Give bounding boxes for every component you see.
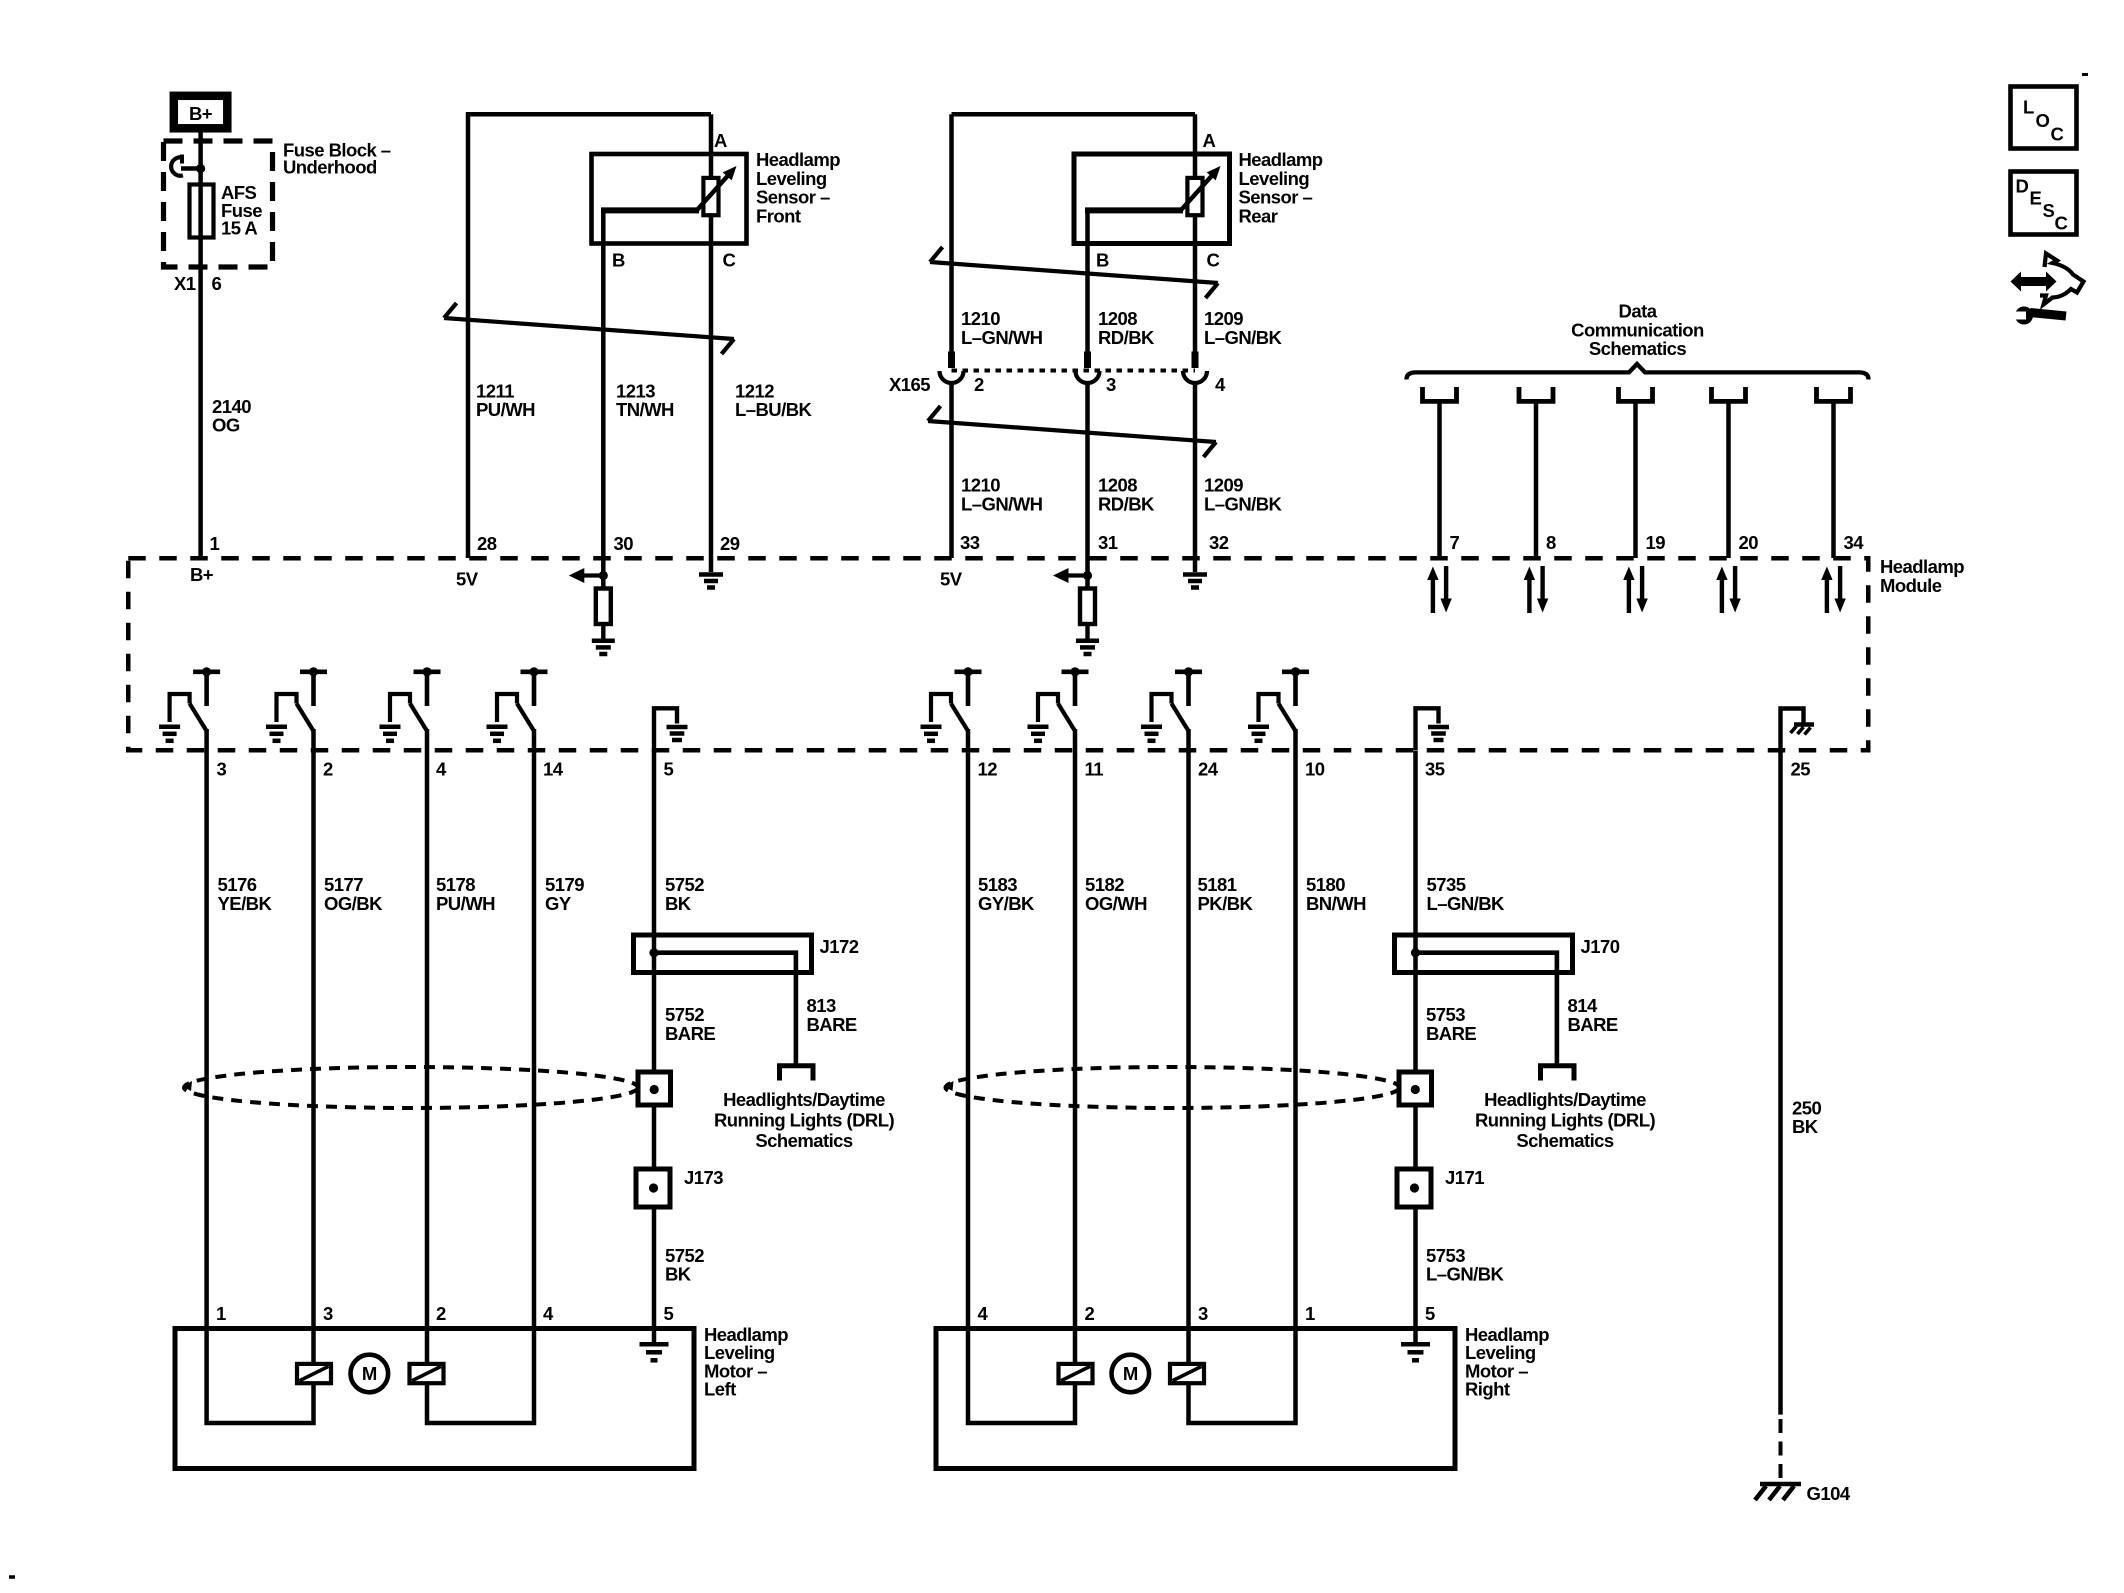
splice pack J172 <box>634 935 812 973</box>
motor left pin 2 label <box>436 1303 446 1324</box>
pin 19 label <box>1646 532 1666 553</box>
label DRL schematics left <box>714 1089 895 1151</box>
svg-text:L–GN/BK: L–GN/BK <box>1426 1264 1505 1285</box>
bidirectional data arrows pin 2 <box>1524 566 1549 613</box>
module pin 14 label <box>543 759 564 780</box>
off-page arrow across front sensor wires <box>444 303 734 354</box>
pin 31 label <box>1098 532 1118 553</box>
motor M left <box>351 1355 389 1393</box>
label 5752 BARE <box>665 1004 715 1044</box>
svg-text:5V: 5V <box>456 569 479 590</box>
svg-text:C: C <box>723 250 736 271</box>
driver output switch 6 <box>1028 667 1089 741</box>
label wire 5176 YE/BK <box>218 874 273 914</box>
label wire 1212 L-BU/BK <box>735 381 813 421</box>
driver output switch 7 <box>1141 667 1202 741</box>
label J170 <box>1581 936 1620 957</box>
svg-text:C: C <box>1207 250 1220 271</box>
wire 1210 L-GN/WH upper <box>949 114 954 352</box>
splice J173 <box>636 1169 670 1207</box>
label wire 1209 lower <box>1204 475 1283 515</box>
driver output switch 8 <box>1248 667 1309 741</box>
svg-text:Left: Left <box>704 1379 736 1400</box>
motor left pin 4 label <box>543 1303 554 1324</box>
svg-text:15 A: 15 A <box>221 218 257 239</box>
label headlamp leveling sensor front <box>756 149 840 226</box>
label connector X1 pin 6 <box>174 273 222 294</box>
label wire 5179 GY <box>545 874 584 914</box>
label wire 5177 OG/BK <box>324 874 383 914</box>
label headlamp leveling motor right <box>1465 1324 1549 1400</box>
label J171 <box>1445 1167 1484 1188</box>
off-page bracket 814 <box>1541 1066 1575 1081</box>
off-page bracket 813 <box>780 1066 814 1081</box>
svg-text:RD/BK: RD/BK <box>1098 493 1155 514</box>
label headlamp leveling motor left <box>704 1324 788 1400</box>
svg-text:L–GN/BK: L–GN/BK <box>1204 327 1283 348</box>
pin 20 label <box>1739 532 1759 553</box>
ground G104 <box>1755 1484 1801 1500</box>
svg-text:Rear: Rear <box>1239 205 1278 226</box>
svg-text:Schematics: Schematics <box>1516 1130 1614 1151</box>
pin 8 label <box>1546 532 1556 553</box>
label wire 5752 BK <box>665 874 704 914</box>
brace data communication <box>1407 364 1869 380</box>
svg-text:X1: X1 <box>174 273 196 294</box>
motor left internal ground <box>640 1329 669 1361</box>
wire 5753 shield drain right <box>1413 751 1418 1329</box>
junction dot J170 <box>1411 948 1420 957</box>
pin 29 label <box>720 533 740 554</box>
svg-text:1: 1 <box>216 1303 226 1324</box>
svg-text:2: 2 <box>323 759 333 780</box>
motor left pin 1 label <box>216 1303 226 1324</box>
output wire 6 to motor <box>1073 729 1078 1329</box>
svg-text:B: B <box>612 250 625 271</box>
label wire 5182 OG/WH <box>1085 874 1147 914</box>
output wire 3 to motor <box>425 729 430 1329</box>
svg-text:Right: Right <box>1465 1379 1510 1400</box>
svg-text:24: 24 <box>1198 759 1219 780</box>
label 5753 BARE <box>1426 1004 1476 1044</box>
svg-text:Front: Front <box>756 205 801 226</box>
svg-text:3: 3 <box>1106 374 1116 395</box>
svg-text:B+: B+ <box>189 103 213 124</box>
label wire 1210 lower <box>961 475 1043 515</box>
label wire 1213 TN/WH <box>616 381 674 421</box>
splice pack J170 <box>1395 935 1573 973</box>
module pin 2 label <box>323 759 333 780</box>
svg-text:M: M <box>1123 1363 1138 1384</box>
svg-text:BARE: BARE <box>1426 1023 1476 1044</box>
svg-text:4: 4 <box>1215 374 1226 395</box>
svg-text:8: 8 <box>1546 532 1556 553</box>
svg-text:34: 34 <box>1844 532 1865 553</box>
svg-text:RD/BK: RD/BK <box>1098 327 1155 348</box>
svg-text:OG: OG <box>212 415 240 436</box>
output wire 4 to motor <box>532 729 537 1329</box>
label wire 5180 BN/WH <box>1306 874 1366 914</box>
scan artifact bottom left <box>9 1575 15 1579</box>
svg-text:Module: Module <box>1880 575 1942 596</box>
svg-text:BARE: BARE <box>665 1023 715 1044</box>
svg-text:3: 3 <box>217 759 227 780</box>
svg-text:4: 4 <box>436 759 447 780</box>
svg-text:PU/WH: PU/WH <box>476 399 535 420</box>
svg-text:BARE: BARE <box>1568 1014 1618 1035</box>
label X165 <box>889 374 930 395</box>
svg-text:L–GN/BK: L–GN/BK <box>1427 893 1506 914</box>
module pin 25 label <box>1791 759 1811 780</box>
bidirectional data arrows pin 1 <box>1427 566 1452 613</box>
svg-text:GY: GY <box>545 893 572 914</box>
shield ellipse right <box>944 1067 1400 1108</box>
module pin 11 label <box>1085 759 1104 780</box>
variable resistor right 2 <box>1170 1364 1204 1383</box>
svg-text:32: 32 <box>1209 532 1229 553</box>
svg-text:814: 814 <box>1568 995 1598 1016</box>
bidirectional data arrows pin 4 <box>1716 566 1741 613</box>
svg-text:Underhood: Underhood <box>283 157 377 178</box>
svg-text:C: C <box>2055 213 2068 234</box>
svg-text:A: A <box>1203 130 1216 151</box>
svg-text:5: 5 <box>664 759 674 780</box>
service icon double arrow <box>2011 272 2057 292</box>
module pin 4 label <box>436 759 447 780</box>
svg-text:25: 25 <box>1791 759 1811 780</box>
headlamp module box (dashed) <box>128 558 1868 750</box>
pin C label front <box>723 250 736 271</box>
pin B label front <box>612 250 625 271</box>
svg-text:10: 10 <box>1305 759 1325 780</box>
pin 33 label <box>960 532 980 553</box>
module pin 35 label <box>1425 759 1445 780</box>
driver output switch 1 <box>159 667 220 741</box>
headlamp leveling sensor front box <box>592 154 747 244</box>
svg-text:33: 33 <box>960 532 980 553</box>
label 5752 BK lower <box>665 1245 704 1285</box>
shield terminal box left <box>638 1072 671 1105</box>
driver output switch 4 <box>487 667 548 741</box>
motor right pin 3 label <box>1198 1303 1208 1324</box>
data link connector 2 <box>1519 387 1553 558</box>
label wire 5181 PK/BK <box>1198 874 1254 914</box>
svg-text:B+: B+ <box>190 564 214 585</box>
svg-text:J173: J173 <box>684 1167 723 1188</box>
variable resistor right 1 <box>1059 1364 1093 1383</box>
label X165 pin 2 <box>974 374 984 395</box>
motor right pin 4 label <box>978 1303 989 1324</box>
pin A label front <box>714 130 727 151</box>
potentiometer front <box>703 178 718 215</box>
wire 1211 PU/WH to 5V <box>468 114 711 558</box>
label wire 1211 PU/WH <box>476 381 535 421</box>
motor left pin 5 label <box>664 1303 674 1324</box>
wire 1210 lower <box>949 383 954 558</box>
label wire 5183 GY/BK <box>978 874 1035 914</box>
shield terminal box right <box>1399 1072 1432 1105</box>
connector X165 terminals <box>940 352 1208 384</box>
svg-text:TN/WH: TN/WH <box>616 399 674 420</box>
svg-text:11: 11 <box>1085 759 1104 780</box>
motor right pin 5 label <box>1425 1303 1435 1324</box>
label J172 <box>820 936 859 957</box>
bidirectional data arrows pin 3 <box>1623 566 1648 613</box>
headlamp leveling motor left box <box>175 1329 694 1469</box>
svg-text:1: 1 <box>210 533 220 554</box>
svg-text:19: 19 <box>1646 532 1666 553</box>
motor left pin 3 label <box>323 1303 333 1324</box>
svg-text:1: 1 <box>1305 1303 1315 1324</box>
internal ground corner at pin x=654 <box>654 708 688 750</box>
svg-text:5752: 5752 <box>665 1004 704 1025</box>
scan artifact top right <box>2082 73 2088 76</box>
pin 32 label <box>1209 532 1229 553</box>
motor right winding loop A <box>968 1329 1075 1424</box>
svg-text:2: 2 <box>974 374 984 395</box>
motor right pin 1 label <box>1305 1303 1315 1324</box>
svg-text:2: 2 <box>436 1303 446 1324</box>
wire 250 BK <box>1778 750 1783 1415</box>
pin 34 label <box>1844 532 1865 553</box>
LOC icon box <box>2011 87 2077 149</box>
label 813 BARE <box>807 995 857 1035</box>
svg-text:4: 4 <box>978 1303 989 1324</box>
svg-text:Headlamp: Headlamp <box>1880 556 1964 577</box>
label wire 5178 PU/WH <box>436 874 495 914</box>
label X165 pin 3 <box>1106 374 1116 395</box>
data link connector 5 <box>1817 387 1851 558</box>
wire rear sensor 5V top <box>952 112 1196 117</box>
svg-text:O: O <box>2036 110 2050 131</box>
motor left winding loop B <box>427 1329 534 1424</box>
module pin 24 label <box>1198 759 1219 780</box>
headlamp leveling sensor rear box <box>1074 154 1230 244</box>
svg-text:20: 20 <box>1739 532 1759 553</box>
svg-text:29: 29 <box>720 533 740 554</box>
svg-text:Schematics: Schematics <box>1589 338 1687 359</box>
svg-text:Headlights/Daytime: Headlights/Daytime <box>723 1089 885 1110</box>
pin 28 label <box>477 533 497 554</box>
headlamp leveling motor right box <box>936 1329 1455 1469</box>
label wire 1208 lower <box>1098 475 1155 515</box>
variable resistor left 1 <box>297 1364 331 1383</box>
svg-text:31: 31 <box>1098 532 1118 553</box>
wire 250 BK dashed tail <box>1779 1419 1783 1482</box>
driver output switch 2 <box>266 667 327 741</box>
internal chassis ground pin 25 <box>1781 709 1815 751</box>
splice J171 <box>1397 1169 1431 1207</box>
label wire 1208 upper <box>1098 308 1155 348</box>
fuse block underhood box (dashed) <box>164 141 273 267</box>
svg-text:C: C <box>2051 124 2064 145</box>
svg-text:35: 35 <box>1425 759 1445 780</box>
svg-text:D: D <box>2016 176 2029 197</box>
label AFS Fuse 15 A <box>221 182 262 239</box>
label wire 2140 OG <box>212 396 251 436</box>
motor left winding loop A <box>207 1329 314 1424</box>
internal ground corner at pin x=1415.5 <box>1416 708 1450 750</box>
svg-text:BN/WH: BN/WH <box>1306 893 1366 914</box>
wire 1213 TN/WH sensor wiper <box>601 210 699 558</box>
svg-text:S: S <box>2043 200 2055 221</box>
pin C label rear <box>1207 250 1220 271</box>
data link connector 4 <box>1712 387 1746 558</box>
connector terminal at fuse block <box>171 155 200 176</box>
svg-text:2: 2 <box>1085 1303 1095 1324</box>
data link connector 1 <box>1423 387 1457 558</box>
svg-text:5: 5 <box>1425 1303 1435 1324</box>
wire 1209 to sensor pin A/C rear <box>1193 114 1198 352</box>
svg-text:OG/WH: OG/WH <box>1085 893 1147 914</box>
pin 1 label <box>210 533 220 554</box>
potentiometer arrow front <box>698 166 737 210</box>
svg-text:BK: BK <box>1792 1116 1819 1137</box>
data link connector 3 <box>1619 387 1653 558</box>
pin B label rear <box>1096 250 1109 271</box>
label data communication schematics <box>1571 301 1704 360</box>
label B+ inside module <box>190 564 214 585</box>
connector X165 dotted line <box>952 369 1196 373</box>
wire 1212 to sensor pin A/C <box>709 114 714 558</box>
pin 30 label <box>614 533 634 554</box>
splice link to 813 BARE <box>654 953 796 1064</box>
module pin 3 label <box>217 759 227 780</box>
internal pull-up resistor and ground under pin at x=603.3 <box>569 558 615 654</box>
svg-text:6: 6 <box>212 273 222 294</box>
svg-text:G104: G104 <box>1807 1483 1851 1504</box>
motor right winding loop B <box>1189 1329 1296 1424</box>
potentiometer rear <box>1187 178 1202 215</box>
output wire 1 to motor <box>204 729 209 1329</box>
driver output switch 3 <box>380 667 441 741</box>
label 5753 L-GN/BK lower <box>1426 1245 1505 1285</box>
svg-text:BK: BK <box>665 1264 692 1285</box>
label wire 250 BK <box>1792 1098 1821 1138</box>
svg-text:L: L <box>2023 97 2034 118</box>
driver output switch 5 <box>921 667 982 741</box>
label X165 pin 4 <box>1215 374 1226 395</box>
internal ground under pin at x=711 <box>699 558 723 588</box>
variable resistor left 2 <box>410 1364 444 1383</box>
svg-text:L–GN/BK: L–GN/BK <box>1204 493 1283 514</box>
motor right pin 2 label <box>1085 1303 1095 1324</box>
svg-text:3: 3 <box>1198 1303 1208 1324</box>
junction dot fuse feed <box>196 164 205 173</box>
svg-text:Running Lights (DRL): Running Lights (DRL) <box>1475 1109 1656 1130</box>
label Fuse Block Underhood <box>283 140 391 178</box>
B+ battery terminal <box>174 96 228 129</box>
svg-text:813: 813 <box>807 995 836 1016</box>
pin A label rear <box>1203 130 1216 151</box>
motor right internal ground <box>1401 1329 1430 1361</box>
wire 2140 OG battery feed <box>198 133 203 559</box>
svg-text:YE/BK: YE/BK <box>218 893 273 914</box>
fuse AFS 15A <box>190 185 214 238</box>
svg-text:X165: X165 <box>889 374 930 395</box>
wire 1208 lower <box>1085 383 1090 558</box>
svg-text:4: 4 <box>543 1303 554 1324</box>
svg-text:7: 7 <box>1450 532 1460 553</box>
svg-text:M: M <box>362 1363 377 1384</box>
shield ellipse left <box>183 1067 639 1108</box>
svg-text:Schematics: Schematics <box>755 1130 853 1151</box>
wire 1209 lower <box>1193 383 1198 558</box>
module pin 12 label <box>978 759 998 780</box>
label wire 5735 L–GN/BK <box>1427 874 1506 914</box>
DESC icon box <box>2011 172 2077 235</box>
svg-text:J170: J170 <box>1581 936 1620 957</box>
label DRL schematics right <box>1475 1089 1656 1151</box>
service icon wrench <box>2011 307 2066 325</box>
junction dot J172 <box>649 948 658 957</box>
potentiometer arrow rear <box>1182 166 1221 210</box>
svg-text:30: 30 <box>614 533 634 554</box>
svg-text:BK: BK <box>665 893 692 914</box>
module pin 10 label <box>1305 759 1325 780</box>
internal pull-up resistor and ground under pin at x=1087.5 <box>1053 558 1099 654</box>
service icon outline arrow <box>2040 254 2084 305</box>
splice link to 814 BARE <box>1416 953 1557 1064</box>
svg-text:PU/WH: PU/WH <box>436 893 495 914</box>
pin 7 label <box>1450 532 1460 553</box>
svg-text:A: A <box>714 130 727 151</box>
svg-text:J171: J171 <box>1445 1167 1484 1188</box>
label 814 BARE <box>1568 995 1618 1035</box>
label headlamp leveling sensor rear <box>1239 149 1323 226</box>
bidirectional data arrows pin 5 <box>1821 566 1846 613</box>
svg-text:5: 5 <box>664 1303 674 1324</box>
svg-text:L–BU/BK: L–BU/BK <box>735 399 813 420</box>
internal ground under pin at x=1195 <box>1183 558 1207 588</box>
svg-text:PK/BK: PK/BK <box>1198 893 1254 914</box>
svg-text:3: 3 <box>323 1303 333 1324</box>
svg-text:BARE: BARE <box>807 1014 857 1035</box>
label Headlamp Module <box>1880 556 1964 596</box>
svg-text:L–GN/WH: L–GN/WH <box>961 493 1043 514</box>
svg-text:Running Lights (DRL): Running Lights (DRL) <box>714 1109 895 1130</box>
svg-text:5753: 5753 <box>1426 1004 1465 1025</box>
svg-text:B: B <box>1096 250 1109 271</box>
svg-text:Headlights/Daytime: Headlights/Daytime <box>1484 1089 1646 1110</box>
label 5V pin 28 <box>456 569 479 590</box>
label 5V pin 33 <box>940 569 963 590</box>
off-page arrow upper rear <box>930 247 1218 298</box>
svg-text:28: 28 <box>477 533 497 554</box>
svg-text:5V: 5V <box>940 569 963 590</box>
label J173 <box>684 1167 723 1188</box>
svg-text:J172: J172 <box>820 936 859 957</box>
output wire 5 to motor <box>966 729 971 1329</box>
label G104 <box>1807 1483 1851 1504</box>
svg-text:14: 14 <box>543 759 564 780</box>
output wire 7 to motor <box>1186 729 1191 1329</box>
motor M right <box>1112 1355 1150 1393</box>
label wire 1210 upper <box>961 308 1043 348</box>
svg-text:12: 12 <box>978 759 998 780</box>
svg-text:OG/BK: OG/BK <box>324 893 383 914</box>
output wire 8 to motor <box>1293 729 1298 1329</box>
svg-text:E: E <box>2030 188 2042 209</box>
wire 1208 RD/BK wiper rear <box>1085 210 1183 352</box>
output wire 2 to motor <box>311 729 316 1329</box>
module pin 5 label <box>664 759 674 780</box>
wire 5752 BK shield drain <box>652 751 657 1329</box>
svg-text:L–GN/WH: L–GN/WH <box>961 327 1043 348</box>
svg-text:GY/BK: GY/BK <box>978 893 1035 914</box>
off-page arrow lower rear <box>928 406 1216 457</box>
label wire 1209 upper <box>1204 308 1283 348</box>
